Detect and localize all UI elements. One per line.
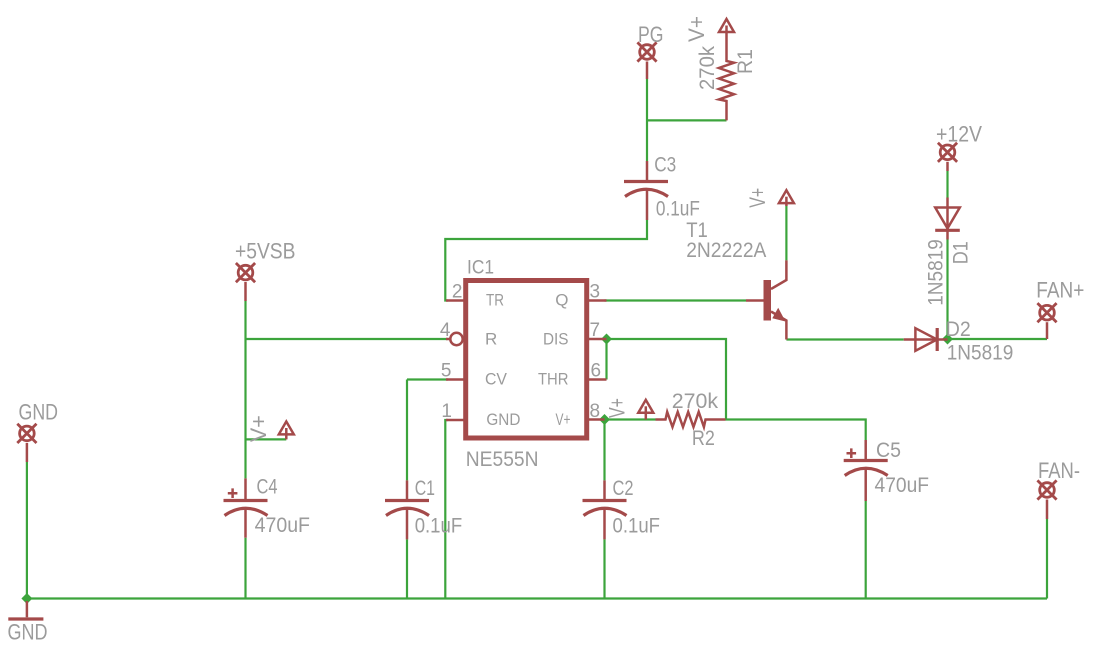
svg-text:+5VSB: +5VSB [235,239,296,264]
pin 7 DIS stub [587,338,607,341]
svg-text:0.1uF: 0.1uF [613,515,661,538]
wire C5 bottom to rail [865,501,867,599]
svg-text:GND: GND [486,410,520,429]
junction pin8 [599,414,610,425]
capacitor C2 [583,480,627,539]
supply V+ at R2 [638,400,653,420]
supply V+ at R1 [719,19,734,32]
wire bottom GND rail [27,597,1047,599]
svg-text:7: 7 [590,320,601,341]
svg-text:270k: 270k [696,46,719,90]
wire pin3 Q to T1 base [605,299,747,301]
resistor R1 [719,32,734,120]
pin 5 CV stub [446,378,465,381]
wire V+ stub at C4 [246,438,287,440]
wire D1 to D2 junction [946,240,948,340]
wire +12V to D1 [946,171,948,198]
svg-text:NE555N: NE555N [466,448,539,471]
svg-text:270k: 270k [672,390,719,413]
pad FAN- [1037,480,1056,499]
svg-text:2: 2 [452,282,463,303]
pin stub FAN+ [1046,322,1049,339]
pin 6 THR stub [587,378,607,381]
transistor T1 emitter [771,312,786,340]
wire C1 column [406,380,408,599]
svg-text:0.1uF: 0.1uF [415,515,463,538]
wire pin8 V+ to R2 [605,418,656,420]
pin stub FAN- [1046,500,1049,520]
svg-text:DIS: DIS [543,330,569,349]
svg-text:IC1: IC1 [467,258,494,279]
pin stub +5VSB [244,282,247,301]
transistor T1 base bar [764,280,772,321]
svg-text:3: 3 [590,282,601,303]
svg-text:+12V: +12V [936,121,982,146]
svg-text:0.1uF: 0.1uF [656,197,700,220]
junction GND rail left [21,593,32,604]
pin stub +12V [946,162,949,171]
pin stub PG [646,62,649,80]
svg-text:V+: V+ [684,16,709,42]
pad PG [637,42,656,61]
svg-text:FAN+: FAN+ [1036,278,1084,303]
svg-text:1: 1 [441,401,452,422]
pad GND upper left [17,424,36,443]
svg-text:6: 6 [591,361,602,382]
pin 3 Q stub [587,299,607,302]
junction D2 cathode [942,334,953,345]
wire pin7 to pin6 [605,339,607,380]
pin 1 GND stub [446,419,465,422]
wire PG to R1 horizontal [647,119,727,121]
wire +5VSB vertical [244,301,246,478]
wire C3 bottom to TR pin [445,220,647,301]
diode D2 [904,328,948,351]
svg-text:8: 8 [590,401,601,422]
svg-text:C5: C5 [876,439,901,462]
wire D2 junction to FAN+ [948,338,1048,340]
wire pin1 GND down to rail [445,420,448,599]
svg-text:PG: PG [638,22,664,47]
supply V+ at C4 [279,422,294,440]
svg-text:C1: C1 [415,477,435,500]
pin 8 V+ stub [587,418,605,421]
svg-text:TR: TR [486,291,504,310]
svg-text:C2: C2 [613,477,634,500]
svg-text:R1: R1 [734,49,757,74]
svg-text:R: R [485,330,497,349]
wire pin7 DIS right and down [607,339,727,420]
capacitor C3 [624,161,668,220]
wire C4 bottom to GND rail [244,538,246,599]
junction pin7 [601,334,612,345]
wire T1 emitter to D2 [786,338,903,340]
pad FAN+ [1037,303,1056,322]
pin 2 TR stub [446,299,465,302]
svg-text:V+: V+ [605,398,630,418]
resistor R2 [656,412,726,427]
wire FAN- vertical [1046,519,1048,599]
pin stub GND pad [26,443,29,462]
capacitor C4 [224,478,268,537]
supply V+ at T1 [779,190,794,206]
svg-text:470uF: 470uF [255,514,310,537]
svg-text:4: 4 [440,320,451,341]
wire pin5 CV to C1 [407,378,448,380]
svg-text:V+: V+ [745,188,770,208]
svg-text:C4: C4 [257,476,278,499]
wire GND left vertical [26,462,28,599]
svg-text:R2: R2 [692,427,715,450]
svg-text:1N5819: 1N5819 [925,239,948,306]
IC1 NE555N box [466,281,587,439]
svg-text:V+: V+ [556,410,571,429]
ground symbol GND [26,601,29,617]
svg-text:5: 5 [441,361,452,382]
wire C2 column [603,420,605,599]
svg-text:THR: THR [538,370,569,389]
diode D1 [935,198,960,240]
svg-text:GND: GND [19,399,59,424]
svg-text:Q: Q [555,291,568,310]
capacitor C5 [844,440,888,501]
pad +12V [938,143,957,162]
transistor T1 emitter arrow [772,308,785,322]
svg-text:D1: D1 [950,241,973,264]
capacitor C1 [385,480,429,539]
svg-text:1N5819: 1N5819 [947,342,1014,365]
wire R2 to C5 [726,420,866,441]
transistor T1 collector [771,260,786,289]
svg-text:GND: GND [8,620,48,645]
svg-text:FAN-: FAN- [1038,458,1080,483]
svg-text:470uF: 470uF [875,474,930,497]
wire T1 collector to V+ [785,206,787,260]
svg-text:V+: V+ [246,415,271,442]
svg-text:2N2222A: 2N2222A [686,239,766,262]
pin 4 R stub with bubble [446,338,450,341]
plus sign C4 [228,488,238,498]
plus sign C5 [847,448,857,458]
svg-text:CV: CV [485,370,508,389]
svg-text:D2: D2 [946,318,971,341]
svg-text:C3: C3 [654,153,676,176]
transistor T1 base pin [746,299,764,302]
wire +5VSB to pin4 R [246,338,448,340]
wire PG net vertical [646,79,648,161]
pad +5VSB [236,263,255,282]
